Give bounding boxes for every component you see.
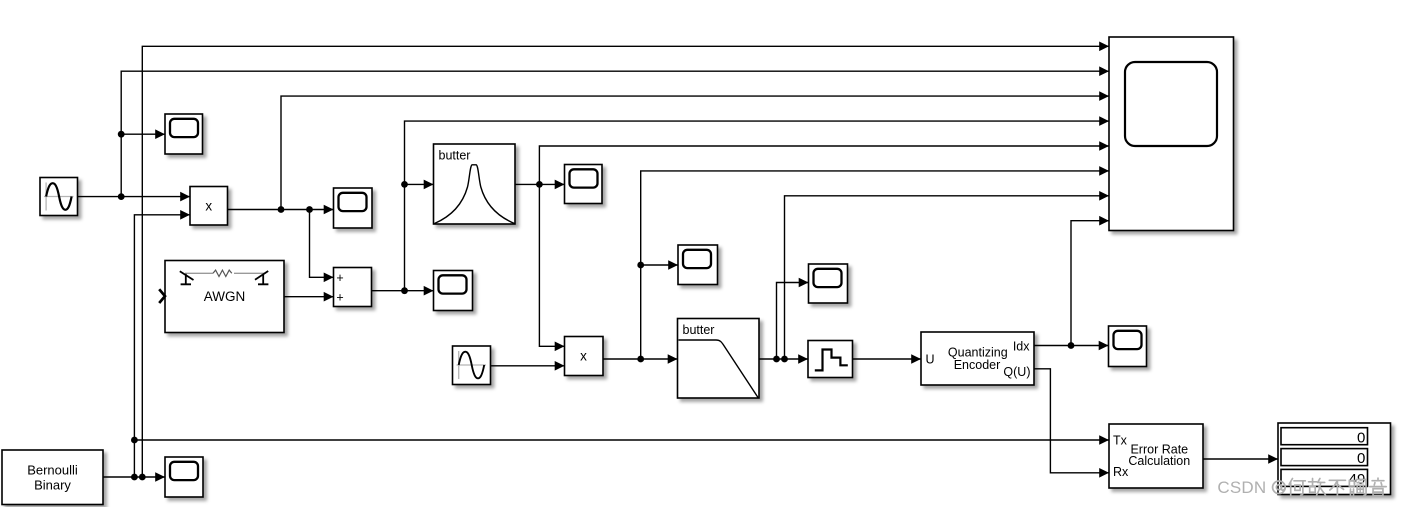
source block Sine Wave: [40, 178, 78, 216]
source block Sine Wave1: [453, 346, 491, 385]
svg-text:U: U: [926, 353, 935, 367]
watermark CSDN @heguwubusiyin: [1217, 478, 1386, 497]
wire Bernoulli to Scope9 input 1: [142, 46, 1109, 477]
product block Product1: [565, 337, 604, 376]
svg-text:+: +: [336, 291, 343, 305]
wire Filter2 branch to Scope9 input 7: [785, 196, 1110, 359]
svg-text:0: 0: [1357, 429, 1365, 446]
scope block Scope9 (8 inputs): [1109, 37, 1234, 231]
lowpass filter block Filter2 (butter): [678, 319, 760, 399]
wire Sine Wave1 output to Product1 second input: [491, 365, 565, 367]
svg-text:Binary: Binary: [34, 478, 71, 493]
sum block Add: [334, 268, 372, 307]
wire Idx branch to Scope9 input 8: [1071, 221, 1109, 346]
product block Product: [190, 187, 228, 226]
AWGN channel block: [159, 261, 284, 333]
svg-text:0: 0: [1357, 450, 1365, 467]
svg-text:CSDN: CSDN: [1217, 478, 1266, 497]
wire Add branch to Filter1 input and Scope9 input 4: [401, 121, 1109, 291]
svg-text:Q(U): Q(U): [1003, 365, 1030, 379]
svg-text:+: +: [336, 271, 343, 285]
scope block Scope7: [1109, 326, 1147, 367]
svg-text:Rx: Rx: [1113, 465, 1129, 479]
display block Display: [1278, 423, 1391, 495]
wire Bernoulli to Product1 second input: [131, 215, 190, 477]
Quantizing Encoder block: [921, 332, 1034, 385]
wire Filter1 output to Scope4: [515, 181, 565, 188]
wire Product output to Scope2: [228, 206, 334, 213]
scope block Scope2: [334, 188, 373, 228]
wire Add output to Scope3: [372, 287, 434, 294]
wire Add branch into Filter1: [405, 183, 434, 185]
svg-text:butter: butter: [439, 149, 471, 163]
svg-text:Calculation: Calculation: [1128, 454, 1190, 468]
wire Filter1 branch to Scope9 input 5: [539, 146, 1109, 184]
scope block Scope6: [809, 264, 848, 303]
svg-text:Tx: Tx: [1113, 434, 1128, 448]
wire AWGN output to Add second input: [284, 296, 334, 298]
wire Filter2 branch to Scope6: [777, 283, 809, 360]
wire Filter1 branch to Product1 first input: [539, 184, 564, 346]
scope block Scope4: [565, 165, 603, 204]
wire Filter2 output to Quantizer: [759, 356, 808, 363]
wire Bernoulli output to Scope6: [103, 474, 165, 481]
scope block Scope8: [165, 457, 203, 497]
scope block Scope5: [678, 245, 718, 285]
wire Product1 tap to Scope5: [641, 264, 678, 266]
svg-text:Bernoulli: Bernoulli: [27, 463, 78, 478]
AWGN unconnected input port: [159, 289, 165, 303]
svg-text:Encoder: Encoder: [954, 358, 1001, 372]
svg-text:AWGN: AWGN: [204, 289, 246, 304]
wire Sine Wave branch to Scope9 input 2: [118, 71, 1109, 196]
source block Bernoulli Binary Generator: [2, 450, 103, 505]
wire Product branch to Add first input: [310, 210, 334, 278]
scope block Scope3: [434, 271, 473, 311]
scope block Scope1: [165, 114, 203, 154]
wire Quantizer output to Quantizing Encoder U: [853, 358, 922, 360]
wire Product1 branch to Scope9 input 6: [637, 171, 1109, 359]
svg-text:x: x: [205, 199, 212, 214]
wire Bernoulli tap to Error Rate Tx input: [134, 439, 1109, 441]
wire Quantizing Encoder Idx to Scope7: [1034, 342, 1109, 349]
Error Rate Calculation block: [1109, 424, 1203, 488]
svg-text:x: x: [580, 349, 587, 364]
wire Product branch to Scope9 input 3: [281, 96, 1109, 209]
svg-text:butter: butter: [683, 323, 715, 337]
wire Product1 output to Filter2: [603, 356, 678, 363]
bandpass filter block Filter1 (butter): [434, 144, 516, 224]
wire Sine Wave tap to Scope1: [121, 133, 165, 135]
wire Error Rate Calculation output to Display: [1203, 458, 1278, 460]
wire Quantizing Encoder Q(U) to Error Rate Rx input: [1034, 369, 1109, 473]
svg-text:Idx: Idx: [1013, 340, 1030, 354]
quantizer block Quantizer: [808, 341, 853, 378]
wire Sine Wave to Product first input: [78, 193, 191, 200]
